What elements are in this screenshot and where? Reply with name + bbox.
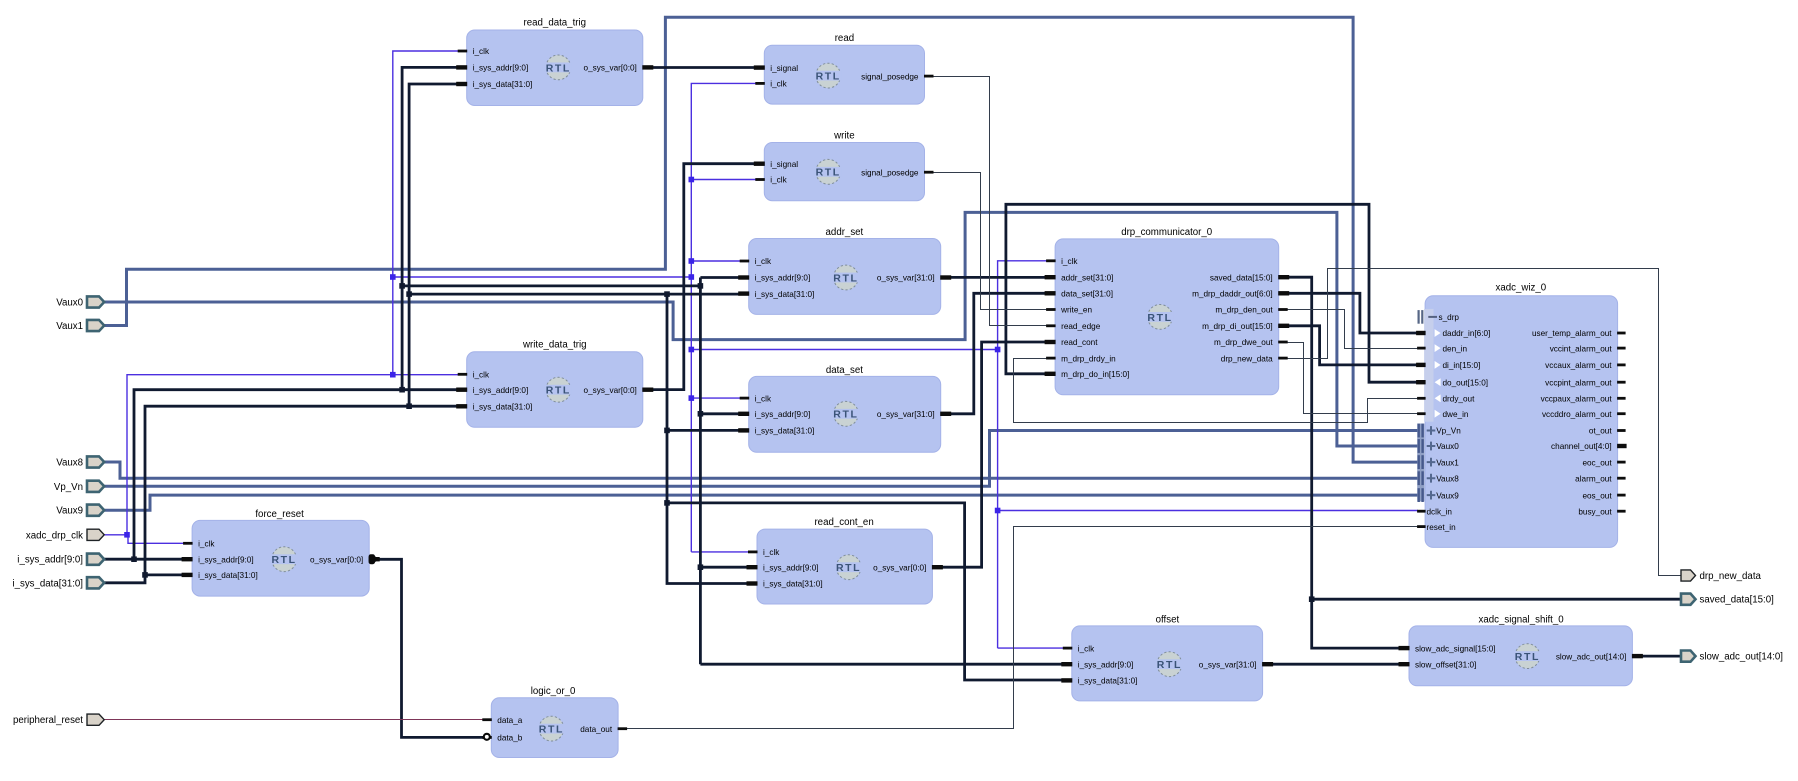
svg-text:s_drp: s_drp <box>1439 313 1460 322</box>
junction junction addr trunk right <box>698 283 704 289</box>
external port xadc_drp_clk <box>26 529 104 541</box>
svg-text:RTL: RTL <box>271 554 296 566</box>
svg-text:read: read <box>835 33 854 44</box>
svg-text:RTL: RTL <box>546 385 571 397</box>
junction junction data trunk left <box>406 291 412 297</box>
xadc pin ot_out <box>1589 427 1626 436</box>
svg-text:i_sys_addr[9:0]: i_sys_addr[9:0] <box>755 410 811 419</box>
external port Vaux9 <box>56 505 104 517</box>
wire net Vaux0 <box>104 212 1418 446</box>
pin marker force_reset o_sys_var <box>369 554 379 564</box>
external port Vaux0 <box>56 296 104 308</box>
svg-text:saved_data[15:0]: saved_data[15:0] <box>1210 273 1273 282</box>
svg-text:drp_new_data: drp_new_data <box>1700 571 1762 582</box>
svg-text:RTL: RTL <box>833 272 858 284</box>
svg-text:addr_set: addr_set <box>826 227 864 238</box>
wire net Vaux1 <box>104 17 1418 462</box>
pin marker logic_or data_b <box>484 734 490 740</box>
module addr_set <box>738 227 951 315</box>
module write_data_trig <box>456 340 653 428</box>
svg-text:dwe_in: dwe_in <box>1443 410 1469 419</box>
external port i_sys_data[31:0] <box>12 577 104 589</box>
xadc pin user_temp_alarm_out <box>1532 329 1626 338</box>
wire net clk branch dclk_in <box>998 510 1418 512</box>
svg-text:i_clk: i_clk <box>770 176 787 185</box>
junction junction data offset tap <box>664 500 670 506</box>
wire net i_sys_addr branch read_cont_en <box>700 566 749 569</box>
svg-text:read_cont_en: read_cont_en <box>814 517 873 528</box>
svg-text:offset: offset <box>1156 614 1180 625</box>
svg-text:o_sys_var[31:0]: o_sys_var[31:0] <box>877 410 935 419</box>
xadc pin channel_out[4:0] <box>1551 442 1627 451</box>
svg-text:i_sys_data[31:0]: i_sys_data[31:0] <box>755 290 815 299</box>
wire net i_sys_addr riser x134 <box>134 390 459 560</box>
xadc pin den_in <box>1417 344 1467 353</box>
svg-text:signal_posedge: signal_posedge <box>861 168 919 177</box>
svg-text:o_sys_var[0:0]: o_sys_var[0:0] <box>310 555 363 564</box>
RTL badge force_reset <box>271 547 298 572</box>
RTL badge xadc_signal_shift_0 <box>1514 644 1541 669</box>
external port saved_data[15:0] out <box>1681 594 1774 606</box>
wire net force_reset o_sys_var to logic_or data_b <box>372 559 487 737</box>
wire net clk riser x997 <box>998 261 1048 648</box>
xadc pin vccaux_alarm_out <box>1545 361 1625 370</box>
external port Vaux1 <box>56 320 104 332</box>
wire net m_drp_den_out to den_in <box>1283 310 1422 349</box>
svg-text:i_sys_addr[9:0]: i_sys_addr[9:0] <box>473 386 529 395</box>
svg-text:Vaux1: Vaux1 <box>56 321 83 332</box>
wire net drdy_out to m_drp_drdy_in <box>1014 359 1422 423</box>
RTL badge read_data_trig <box>545 55 572 80</box>
external port peripheral_reset <box>13 714 104 726</box>
svg-text:RTL: RTL <box>816 167 841 179</box>
svg-text:data_b: data_b <box>497 734 522 743</box>
svg-text:vccpint_alarm_out: vccpint_alarm_out <box>1545 378 1612 387</box>
wire net reset (logic_or data_out to reset_in) <box>623 527 1422 729</box>
junction junction data write_data_trig <box>406 403 412 409</box>
svg-text:Vaux9: Vaux9 <box>1436 491 1459 500</box>
xadc pin vccint_alarm_out <box>1550 344 1626 353</box>
wire net clk branch addr_set i_clk <box>691 260 741 262</box>
junction junction data trunk x667 <box>664 291 670 297</box>
xadc pin eoc_out <box>1582 458 1625 467</box>
wire net saved_data to slow_adc_signal <box>1312 599 1412 648</box>
svg-text:RTL: RTL <box>546 62 571 74</box>
svg-text:ot_out: ot_out <box>1589 427 1612 436</box>
wire net clk branch write i_clk <box>691 179 756 181</box>
module xadc_wiz_0 <box>1417 283 1617 548</box>
xadc pin Vaux0 <box>1418 439 1460 453</box>
junction junction clk T1 left <box>390 274 396 280</box>
svg-text:i_sys_data[31:0]: i_sys_data[31:0] <box>473 80 533 89</box>
wire net i_sys_addr branch data_set <box>700 412 741 415</box>
svg-text:eos_out: eos_out <box>1582 491 1612 500</box>
wire net peripheral_reset to data_a <box>105 719 488 721</box>
svg-text:i_clk: i_clk <box>1078 644 1095 653</box>
svg-text:m_drp_di_out[15:0]: m_drp_di_out[15:0] <box>1202 322 1273 331</box>
junction junction clk dclk branch <box>995 508 1001 514</box>
svg-text:i_sys_data[31:0]: i_sys_data[31:0] <box>755 427 815 436</box>
junction junction clk T2 right <box>995 347 1001 353</box>
xadc pin di_in[15:0] <box>1416 361 1480 370</box>
svg-text:drdy_out: drdy_out <box>1443 395 1476 404</box>
wire net read_cont_en o_sys_var to drp read_cont <box>936 342 1051 567</box>
wire net Vaux9 <box>104 495 1418 510</box>
svg-text:i_signal: i_signal <box>770 160 798 169</box>
svg-text:data_set[31:0]: data_set[31:0] <box>1061 290 1113 299</box>
xadc pin drdy_out <box>1417 394 1475 403</box>
module logic_or_0 <box>482 686 627 758</box>
svg-text:i_clk: i_clk <box>473 47 490 56</box>
svg-text:Vaux8: Vaux8 <box>1436 474 1459 483</box>
svg-text:i_sys_data[31:0]: i_sys_data[31:0] <box>12 578 83 589</box>
svg-text:write_data_trig: write_data_trig <box>522 340 587 351</box>
wire net slow_adc_out <box>1636 655 1680 658</box>
wire net i_sys_data riser x667 <box>667 294 749 583</box>
xadc pin daddr_in[6:0] <box>1416 329 1490 338</box>
svg-text:peripheral_reset: peripheral_reset <box>13 715 83 726</box>
wire net read_data_trig o_sys_var to read i_signal <box>646 66 760 69</box>
svg-text:i_sys_addr[9:0]: i_sys_addr[9:0] <box>17 555 83 566</box>
svg-text:data_out: data_out <box>580 725 613 734</box>
junction junction addr data_set <box>698 411 704 417</box>
wire net m_drp_daddr_out <box>1282 293 1421 333</box>
junction junction addr pentagon <box>131 556 137 562</box>
svg-text:i_sys_addr[9:0]: i_sys_addr[9:0] <box>198 555 254 564</box>
svg-text:m_drp_den_out: m_drp_den_out <box>1215 306 1273 315</box>
svg-text:slow_adc_signal[15:0]: slow_adc_signal[15:0] <box>1415 644 1496 653</box>
svg-text:o_sys_var[0:0]: o_sys_var[0:0] <box>584 386 637 395</box>
xadc pin do_out[15:0] <box>1416 378 1488 387</box>
wire net do_out to m_drp_do_in <box>1006 204 1421 382</box>
wire net i_sys_addr riser x700 <box>699 278 702 665</box>
svg-text:RTL: RTL <box>816 71 841 83</box>
wire net clk trunk T2 <box>691 349 997 351</box>
junction junction addr read_cont_en <box>698 564 704 570</box>
junction junction saved_data split <box>1309 596 1315 602</box>
wire net i_sys_addr trunk <box>402 284 700 287</box>
wire net drp_new_data <box>1283 269 1681 576</box>
svg-text:i_clk: i_clk <box>770 80 787 89</box>
svg-text:i_sys_data[31:0]: i_sys_data[31:0] <box>198 571 258 580</box>
junction junction clk T1 right <box>689 274 695 280</box>
xadc pin vccpint_alarm_out <box>1545 378 1625 387</box>
wire net i_sys_data pentagon to force_reset <box>104 575 184 583</box>
wire net addr_set o_sys_var to drp addr_set <box>944 276 1051 279</box>
svg-text:i_sys_addr[9:0]: i_sys_addr[9:0] <box>473 64 529 73</box>
wire net Vaux8 <box>104 462 1418 478</box>
wire net i_sys_addr branch addr_set <box>700 276 741 279</box>
svg-text:m_drp_daddr_out[6:0]: m_drp_daddr_out[6:0] <box>1192 290 1273 299</box>
svg-text:vccddro_alarm_out: vccddro_alarm_out <box>1542 410 1612 419</box>
xadc pin Vaux8 <box>1418 471 1460 485</box>
svg-text:RTL: RTL <box>1147 312 1172 324</box>
svg-text:i_sys_data[31:0]: i_sys_data[31:0] <box>1078 677 1138 686</box>
svg-text:i_clk: i_clk <box>473 371 490 380</box>
wire net read signal_posedge to drp read_edge <box>929 77 1052 326</box>
wire net clk riser x691 <box>691 83 756 552</box>
xadc pin reset_in <box>1417 523 1456 532</box>
module data_set <box>738 365 951 452</box>
wire net m_drp_di_out <box>1282 326 1421 365</box>
wire net i_sys_data branch data_set <box>667 429 741 432</box>
svg-text:alarm_out: alarm_out <box>1575 474 1612 483</box>
junction junction clk write_data_trig <box>390 372 396 378</box>
svg-text:slow_adc_out[14:0]: slow_adc_out[14:0] <box>1556 652 1627 661</box>
junction junction data data_set <box>664 428 670 434</box>
module read <box>754 33 934 104</box>
svg-text:xadc_drp_clk: xadc_drp_clk <box>26 530 83 541</box>
svg-text:i_sys_addr[9:0]: i_sys_addr[9:0] <box>755 274 811 283</box>
svg-text:m_drp_do_in[15:0]: m_drp_do_in[15:0] <box>1061 370 1129 379</box>
external port Vp_Vn <box>54 481 104 493</box>
junction junction clk data_set i_clk <box>689 395 695 401</box>
wire net clk branch offset i_clk <box>998 647 1065 649</box>
svg-text:slow_adc_out[14:0]: slow_adc_out[14:0] <box>1700 652 1783 663</box>
module read_data_trig <box>456 18 653 106</box>
junction junction addr write_data_trig <box>399 387 405 393</box>
wire net m_drp_dwe_out to dwe_in <box>1283 343 1422 414</box>
svg-text:i_clk: i_clk <box>763 548 780 557</box>
wire net clk branch read_cont_en i_clk <box>691 551 749 553</box>
svg-text:eoc_out: eoc_out <box>1582 458 1612 467</box>
svg-text:write_en: write_en <box>1060 306 1092 315</box>
module offset <box>1061 614 1273 701</box>
junction junction addr trunk left <box>399 283 405 289</box>
RTL badge read <box>815 63 842 88</box>
module read_cont_en <box>747 517 943 604</box>
wire net clk trunk T1 <box>393 276 692 278</box>
svg-text:i_clk: i_clk <box>198 540 215 549</box>
svg-text:read_cont: read_cont <box>1061 338 1098 347</box>
svg-text:daddr_in[6:0]: daddr_in[6:0] <box>1443 329 1491 338</box>
module drp_communicator_0 <box>1045 227 1290 395</box>
RTL badge logic_or_0 <box>538 716 565 741</box>
external port i_sys_addr[9:0] <box>17 554 104 566</box>
svg-text:logic_or_0: logic_or_0 <box>531 686 576 697</box>
RTL badge drp_communicator_0 <box>1147 305 1174 330</box>
svg-text:i_signal: i_signal <box>770 64 798 73</box>
xadc pin vccpaux_alarm_out <box>1541 395 1626 404</box>
svg-text:addr_set[31:0]: addr_set[31:0] <box>1061 273 1113 282</box>
xadc pin Vp_Vn <box>1418 424 1462 438</box>
junction junction clk T2 left <box>689 347 695 353</box>
svg-text:Vp_Vn: Vp_Vn <box>54 482 83 493</box>
junction junction clk xadc_drp_clk <box>124 532 130 538</box>
junction junction clk write i_clk <box>689 177 695 183</box>
svg-text:read_data_trig: read_data_trig <box>524 18 586 29</box>
svg-text:i_clk: i_clk <box>755 257 772 266</box>
wire net clk branch data_set i_clk <box>691 397 741 399</box>
module force_reset <box>182 509 380 596</box>
svg-text:dclk_in: dclk_in <box>1427 507 1453 516</box>
svg-text:i_clk: i_clk <box>1061 257 1078 266</box>
svg-text:Vaux0: Vaux0 <box>56 298 83 309</box>
wire net i_sys_data riser x145 <box>145 406 459 575</box>
wire net clk pentagon to junction <box>104 534 128 536</box>
svg-text:di_in[15:0]: di_in[15:0] <box>1443 361 1481 370</box>
external port drp_new_data out <box>1681 570 1762 582</box>
wire net i_sys_addr riser x402 to read_data_trig <box>402 67 459 389</box>
svg-text:read_edge: read_edge <box>1061 322 1101 331</box>
wire net i_sys_data branch offset <box>667 503 1065 680</box>
wire net i_sys_data riser x409 to read_data_trig <box>409 84 459 406</box>
svg-text:do_out[15:0]: do_out[15:0] <box>1443 378 1489 387</box>
svg-text:o_sys_var[31:0]: o_sys_var[31:0] <box>1199 660 1257 669</box>
svg-text:o_sys_var[0:0]: o_sys_var[0:0] <box>873 563 926 572</box>
RTL badge write_data_trig <box>545 377 572 402</box>
wire net i_sys_addr branch offset <box>700 663 1064 666</box>
svg-text:Vaux8: Vaux8 <box>56 458 83 469</box>
svg-text:i_sys_addr[9:0]: i_sys_addr[9:0] <box>1078 660 1134 669</box>
svg-text:m_drp_dwe_out: m_drp_dwe_out <box>1214 338 1273 347</box>
svg-text:i_sys_data[31:0]: i_sys_data[31:0] <box>473 403 533 412</box>
svg-text:i_clk: i_clk <box>755 394 772 403</box>
svg-text:i_sys_addr[9:0]: i_sys_addr[9:0] <box>763 563 819 572</box>
wire net clk riser x127 <box>127 375 459 535</box>
RTL badge data_set <box>833 401 860 426</box>
svg-text:Vaux0: Vaux0 <box>1436 442 1459 451</box>
svg-text:o_sys_var[0:0]: o_sys_var[0:0] <box>584 64 637 73</box>
svg-text:vccpaux_alarm_out: vccpaux_alarm_out <box>1541 395 1613 404</box>
svg-text:busy_out: busy_out <box>1578 507 1612 516</box>
interface pin s_drp <box>1418 310 1460 324</box>
xadc pin busy_out <box>1578 507 1625 516</box>
svg-text:RTL: RTL <box>836 562 861 574</box>
RTL badge write <box>815 159 842 184</box>
wire net offset o_sys_var to slow_offset <box>1266 663 1412 666</box>
svg-text:RTL: RTL <box>539 724 564 736</box>
junction junction data pentagon <box>142 572 148 578</box>
wire net Vp_Vn <box>104 431 1418 487</box>
svg-text:vccaux_alarm_out: vccaux_alarm_out <box>1545 361 1612 370</box>
svg-text:Vp_Vn: Vp_Vn <box>1436 427 1461 436</box>
svg-text:RTL: RTL <box>1157 659 1182 671</box>
svg-text:RTL: RTL <box>833 409 858 421</box>
wire net clk riser x392 to read_data_trig i_clk <box>393 51 459 375</box>
svg-text:slow_offset[31:0]: slow_offset[31:0] <box>1415 660 1476 669</box>
svg-text:Vaux9: Vaux9 <box>56 506 83 517</box>
wire net i_sys_addr pentagon to force_reset <box>104 558 184 561</box>
svg-text:channel_out[4:0]: channel_out[4:0] <box>1551 442 1612 451</box>
external port Vaux8 <box>56 456 104 468</box>
wire net write_data_trig o_sys_var to write i_signal <box>646 164 760 390</box>
svg-text:den_in: den_in <box>1443 344 1468 353</box>
wire net data_set o_sys_var to drp data_set <box>944 293 1051 414</box>
svg-text:data_set: data_set <box>826 365 863 376</box>
svg-text:xadc_signal_shift_0: xadc_signal_shift_0 <box>1479 614 1565 625</box>
wire net clk jog to force_reset i_clk <box>128 535 184 544</box>
svg-text:m_drp_drdy_in: m_drp_drdy_in <box>1061 354 1116 363</box>
wire net i_sys_data trunk <box>409 293 741 296</box>
external port slow_adc_out[14:0] out <box>1681 651 1783 663</box>
svg-text:vccint_alarm_out: vccint_alarm_out <box>1550 344 1613 353</box>
xadc pin eos_out <box>1582 491 1625 500</box>
xadc pin vccddro_alarm_out <box>1542 410 1626 419</box>
module xadc_signal_shift_0 <box>1399 614 1643 686</box>
wire net write signal_posedge to drp write_en <box>929 173 1052 310</box>
svg-text:data_a: data_a <box>497 716 522 725</box>
xadc pin Vaux9 <box>1418 488 1460 502</box>
svg-text:force_reset: force_reset <box>255 509 304 520</box>
RTL badge addr_set <box>833 265 860 290</box>
svg-text:Vaux1: Vaux1 <box>1436 458 1459 467</box>
svg-text:signal_posedge: signal_posedge <box>861 72 919 81</box>
svg-text:i_sys_data[31:0]: i_sys_data[31:0] <box>763 580 823 589</box>
RTL badge offset <box>1156 652 1183 677</box>
junction junction clk addr_set i_clk <box>689 258 695 264</box>
svg-text:drp_communicator_0: drp_communicator_0 <box>1121 227 1213 238</box>
xadc pin dwe_in <box>1417 410 1469 419</box>
svg-text:saved_data[15:0]: saved_data[15:0] <box>1700 595 1774 606</box>
svg-text:user_temp_alarm_out: user_temp_alarm_out <box>1532 329 1612 338</box>
xadc pin Vaux1 <box>1418 455 1460 469</box>
svg-text:RTL: RTL <box>1515 651 1540 663</box>
svg-text:o_sys_var[31:0]: o_sys_var[31:0] <box>877 274 935 283</box>
xadc pin alarm_out <box>1575 474 1625 483</box>
svg-text:drp_new_data: drp_new_data <box>1221 354 1273 363</box>
module write <box>754 131 934 201</box>
svg-text:write: write <box>833 131 854 142</box>
wire net saved_data <box>1282 277 1680 599</box>
RTL badge read_cont_en <box>835 555 862 580</box>
svg-text:reset_in: reset_in <box>1427 523 1457 532</box>
xadc pin dclk_in <box>1417 507 1452 516</box>
svg-text:xadc_wiz_0: xadc_wiz_0 <box>1495 283 1546 294</box>
